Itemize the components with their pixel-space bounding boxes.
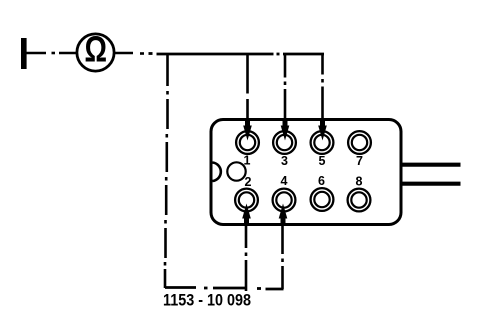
part number label 1153-10 098 — [163, 291, 251, 310]
wire to harness (upper) — [402, 163, 461, 167]
svg-text:1: 1 — [244, 154, 251, 168]
index hole — [227, 162, 245, 180]
svg-text:4: 4 — [281, 174, 288, 188]
svg-text:Ω: Ω — [85, 29, 108, 70]
pin 5 — [311, 131, 334, 168]
wire: left measurement drop (dash-dot vertical) — [165, 53, 168, 288]
ohmmeter U1 — [77, 29, 114, 72]
wire: bottom dash-dot bus — [165, 288, 284, 290]
wire to harness (lower) — [402, 182, 461, 186]
keying notch — [213, 163, 221, 182]
pin 8 — [348, 175, 371, 212]
pin 7 — [348, 131, 371, 168]
arrow to pin 1 — [243, 54, 252, 141]
svg-text:3: 3 — [281, 154, 288, 168]
wire probe to ohmmeter (dash-dot) — [27, 52, 78, 55]
connector body — [211, 120, 401, 225]
pin 3 — [273, 131, 296, 168]
arrow to pin 3 — [281, 54, 290, 141]
svg-text:7: 7 — [356, 154, 363, 168]
svg-text:2: 2 — [245, 175, 252, 189]
pin 4 — [273, 174, 296, 211]
wire: top horizontal bus — [149, 52, 325, 55]
arrow to pin 2 — [242, 204, 251, 292]
pin 1 — [236, 131, 259, 167]
probe tip — [21, 38, 27, 69]
svg-text:8: 8 — [356, 175, 363, 189]
svg-text:6: 6 — [318, 174, 325, 188]
pin 2 — [235, 175, 258, 211]
wire ohmmeter to bus (dash-dot) — [115, 52, 145, 55]
arrow to pin 5 — [318, 54, 327, 141]
arrow to pin 4 — [279, 204, 288, 290]
svg-text:5: 5 — [319, 154, 326, 168]
pin 6 — [311, 174, 334, 211]
svg-text:1153 - 10 098: 1153 - 10 098 — [163, 291, 251, 310]
